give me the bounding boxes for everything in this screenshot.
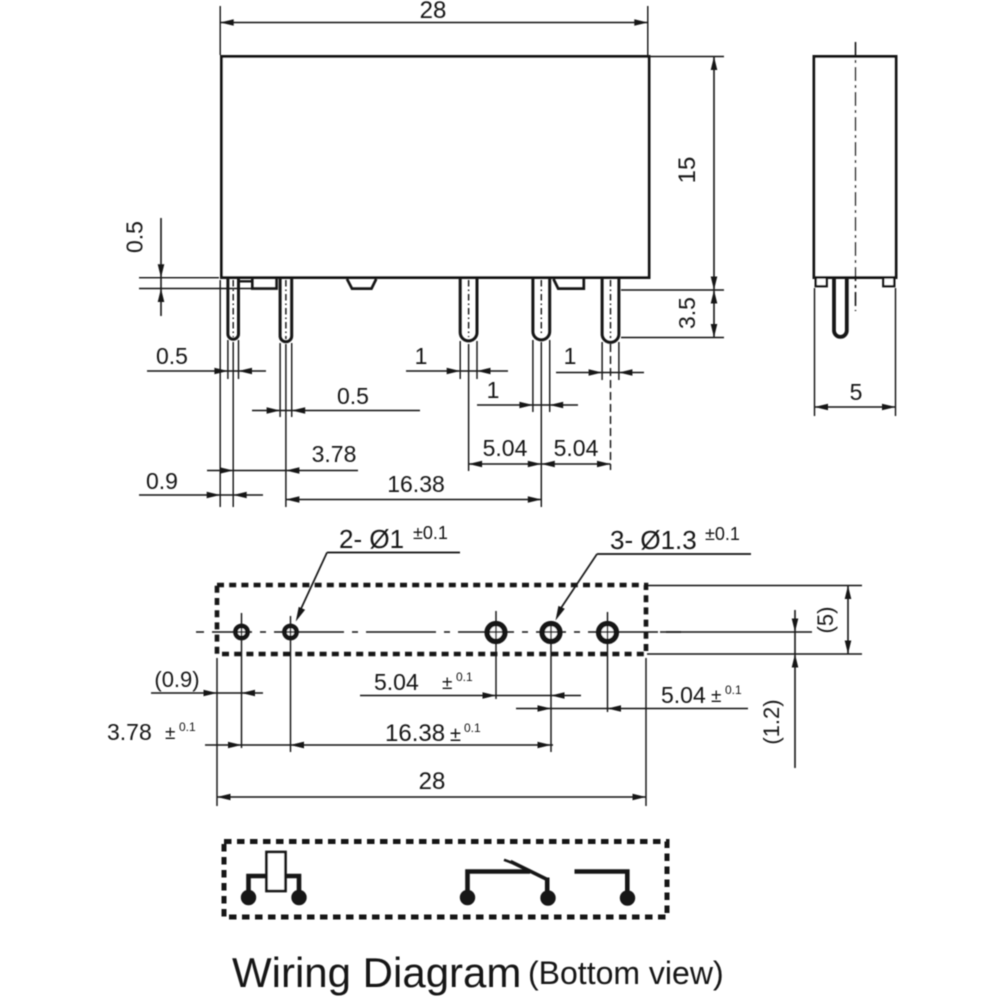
svg-text:1: 1 [564,343,577,369]
svg-text:0.1: 0.1 [464,721,481,735]
svg-text:5.04: 5.04 [483,435,528,461]
dimension 0.5 pin 2 width [252,383,420,414]
dimension 28 bottom view [217,768,646,800]
case boss between pin 1 and pin 2 [239,279,277,289]
dimension 5 extension lines [815,288,896,416]
coil pin dot A [241,890,256,905]
pin 4 [533,278,550,340]
pin 5 extension lines [602,342,619,470]
pin 5 [602,278,619,343]
dimension (0.9) bottom view [151,667,263,696]
svg-text:5.04: 5.04 [554,435,599,461]
svg-text:0.5: 0.5 [122,221,148,253]
dimension 5.04 pin3-pin4 [469,435,542,467]
hole 3 [487,624,505,642]
dimension 5.04 hole3-hole4 [360,669,581,699]
label 3-dia-1.3 leader [556,554,752,621]
svg-text:3.78: 3.78 [312,441,357,467]
dimension (1.2) bottom view [759,610,798,768]
svg-text:3.5: 3.5 [674,297,700,329]
contact 1 blade [504,860,547,880]
side view left foot [816,278,827,287]
side view right foot [883,278,894,287]
svg-text:1: 1 [487,377,500,403]
case boss between pin 4 and pin 5 [554,279,584,289]
pin 3 [460,278,477,341]
hole 1 centerline [241,613,243,748]
dimension 15 [674,57,717,291]
pin 1 centerline [232,280,234,337]
wiring diagram dashed box [224,842,667,918]
pin 1 [228,278,239,340]
dimension 0.9 front [139,468,263,498]
pin 3 centerline [468,280,470,337]
dimension 0.5 pin 1 width [147,343,266,374]
svg-text:5.04: 5.04 [661,682,706,708]
svg-text:5: 5 [850,379,863,405]
dimension 1 pin 3 width [406,343,508,374]
svg-text:±: ± [711,686,721,707]
front view relay case [222,57,650,278]
svg-text:0.5: 0.5 [156,343,188,369]
hole 2 [284,626,296,638]
svg-text:16.38: 16.38 [385,720,445,747]
dimension 3.78 bottom view [107,719,553,748]
coil left wire [249,876,267,898]
dimension 28 top [220,0,648,26]
svg-text:28: 28 [420,0,447,24]
bottom view right extension lines [647,586,862,655]
pin 2 extension lines [280,343,292,507]
case boss center [347,279,376,289]
label 3-dia-1.3 text [610,524,740,555]
svg-text:3.78: 3.78 [107,719,152,745]
contact 1 wire [545,878,550,899]
svg-text:0.5: 0.5 [337,383,369,409]
hole 4 centerline [550,622,552,752]
svg-text:(1.2): (1.2) [759,699,784,744]
dimension 3.78 front [207,441,358,474]
hole 4 [542,624,560,642]
dimension 0.5 left vertical [122,218,165,316]
contact 1 pin dot right [540,890,555,905]
pin 2 [280,278,292,342]
dimension 16.38 front [286,471,541,503]
pin 2 centerline [285,280,287,339]
coil K1 [267,852,286,891]
dimension 5.04 hole4-hole5 [516,682,748,712]
pin 1 extension lines [220,280,238,507]
coil right wire [286,876,300,898]
dimension 3.5 [674,290,717,338]
contact 2 wire [575,872,628,899]
hole 5 [599,624,617,642]
svg-text:0.1: 0.1 [725,683,742,697]
hole 2 centerline [290,616,292,752]
coil pin dot B [291,890,306,905]
svg-text:15: 15 [674,157,701,184]
pin 3 extension lines [460,341,477,471]
dimension 1 pin 5 width [556,343,644,376]
dimension 28 top extension lines [220,6,648,55]
side view pin [834,278,847,337]
svg-text:28: 28 [419,768,446,795]
dimension 5 side view [815,379,896,410]
dimension 1 pin 4 width [477,377,578,408]
svg-text:±0.1: ±0.1 [705,524,740,544]
dimension 16.38 bottom view [291,720,552,748]
svg-text:1: 1 [415,343,428,369]
pin 4 extension lines [533,340,550,507]
svg-text:0.9: 0.9 [146,468,178,494]
label 2-dia-1 text [339,523,448,554]
svg-text:5.04: 5.04 [374,669,419,695]
contact 1 common wire [468,872,531,899]
label 2-dia-1 leader [296,553,460,622]
svg-text:2- Ø1: 2- Ø1 [339,524,404,554]
pin 5 centerline [610,280,612,338]
hole 5 centerline [607,612,609,712]
svg-text:(Bottom view): (Bottom view) [528,955,724,991]
svg-text:16.38: 16.38 [387,471,445,497]
svg-text:±: ± [165,723,175,744]
contact 1 pin dot left [460,890,475,905]
bottom view edge extension lines [217,658,646,806]
hole 3 centerline [495,611,497,699]
dimension 0.5 left extension lines [139,278,253,289]
dimension 15 and 3.5 extension lines [621,57,724,338]
svg-text:±: ± [450,724,461,746]
pin 4 centerline [540,280,542,336]
dimension 5.04 pin4-pin5 [541,435,610,467]
side view relay case [814,57,896,278]
bottom view horizontal centerline [196,631,681,633]
svg-text:±: ± [442,673,452,694]
bottom view dashed outline [217,585,646,654]
svg-text:0.1: 0.1 [179,720,196,734]
contact 2 pin dot [620,890,635,905]
svg-text:(5): (5) [813,607,838,634]
svg-text:Wiring Diagram: Wiring Diagram [232,949,521,996]
side view centerline [855,42,857,311]
caption wiring diagram [232,949,724,996]
svg-text:±0.1: ±0.1 [413,523,448,543]
dimension (5) bottom view [813,586,851,655]
hole 1 [235,626,247,638]
svg-text:0.1: 0.1 [456,670,473,684]
svg-text:(0.9): (0.9) [154,667,199,692]
svg-text:3- Ø1.3: 3- Ø1.3 [610,525,697,555]
